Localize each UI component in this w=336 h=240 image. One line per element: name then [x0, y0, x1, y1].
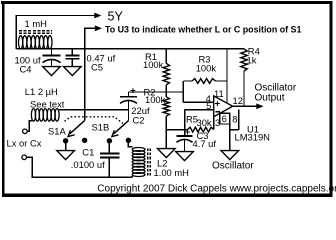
svg-text:1 mH: 1 mH — [25, 18, 47, 29]
svg-text:30k: 30k — [197, 117, 212, 128]
svg-text:+: + — [130, 85, 136, 96]
svg-text:See text: See text — [30, 99, 65, 110]
svg-text:C5: C5 — [91, 62, 103, 73]
svg-text:Lx or Cx: Lx or Cx — [7, 137, 42, 148]
svg-text:5: 5 — [206, 100, 211, 111]
svg-text:100k: 100k — [145, 94, 166, 105]
svg-text:To U3 to indicate whether L o: To U3 to indicate whether L or C positio… — [105, 24, 301, 34]
svg-text:5Y: 5Y — [108, 9, 124, 23]
svg-text:.0100 uf: .0100 uf — [71, 159, 105, 170]
svg-text:+: + — [215, 99, 221, 110]
svg-text:Oscillator: Oscillator — [212, 161, 254, 172]
svg-text:12: 12 — [233, 95, 243, 106]
svg-text:6: 6 — [222, 113, 227, 124]
svg-text:Output: Output — [255, 92, 285, 103]
svg-text:C2: C2 — [133, 114, 145, 125]
svg-text:S1B: S1B — [92, 122, 110, 133]
svg-text:C1: C1 — [82, 147, 94, 158]
svg-text:L1 2 µH: L1 2 µH — [25, 86, 58, 97]
svg-text:S1A: S1A — [48, 126, 66, 137]
svg-text:8: 8 — [232, 114, 237, 125]
svg-text:1k: 1k — [247, 54, 257, 65]
svg-text:100k: 100k — [196, 63, 217, 74]
svg-text:C4: C4 — [20, 64, 32, 75]
svg-text:100k: 100k — [143, 59, 164, 70]
svg-text:LM319N: LM319N — [235, 131, 270, 142]
svg-text:Copyright 2007 Dick Cappels w: Copyright 2007 Dick Cappels www.projects… — [97, 184, 336, 195]
svg-text:4.7 uf: 4.7 uf — [193, 138, 217, 149]
svg-text:1.00 mH: 1.00 mH — [154, 167, 189, 178]
